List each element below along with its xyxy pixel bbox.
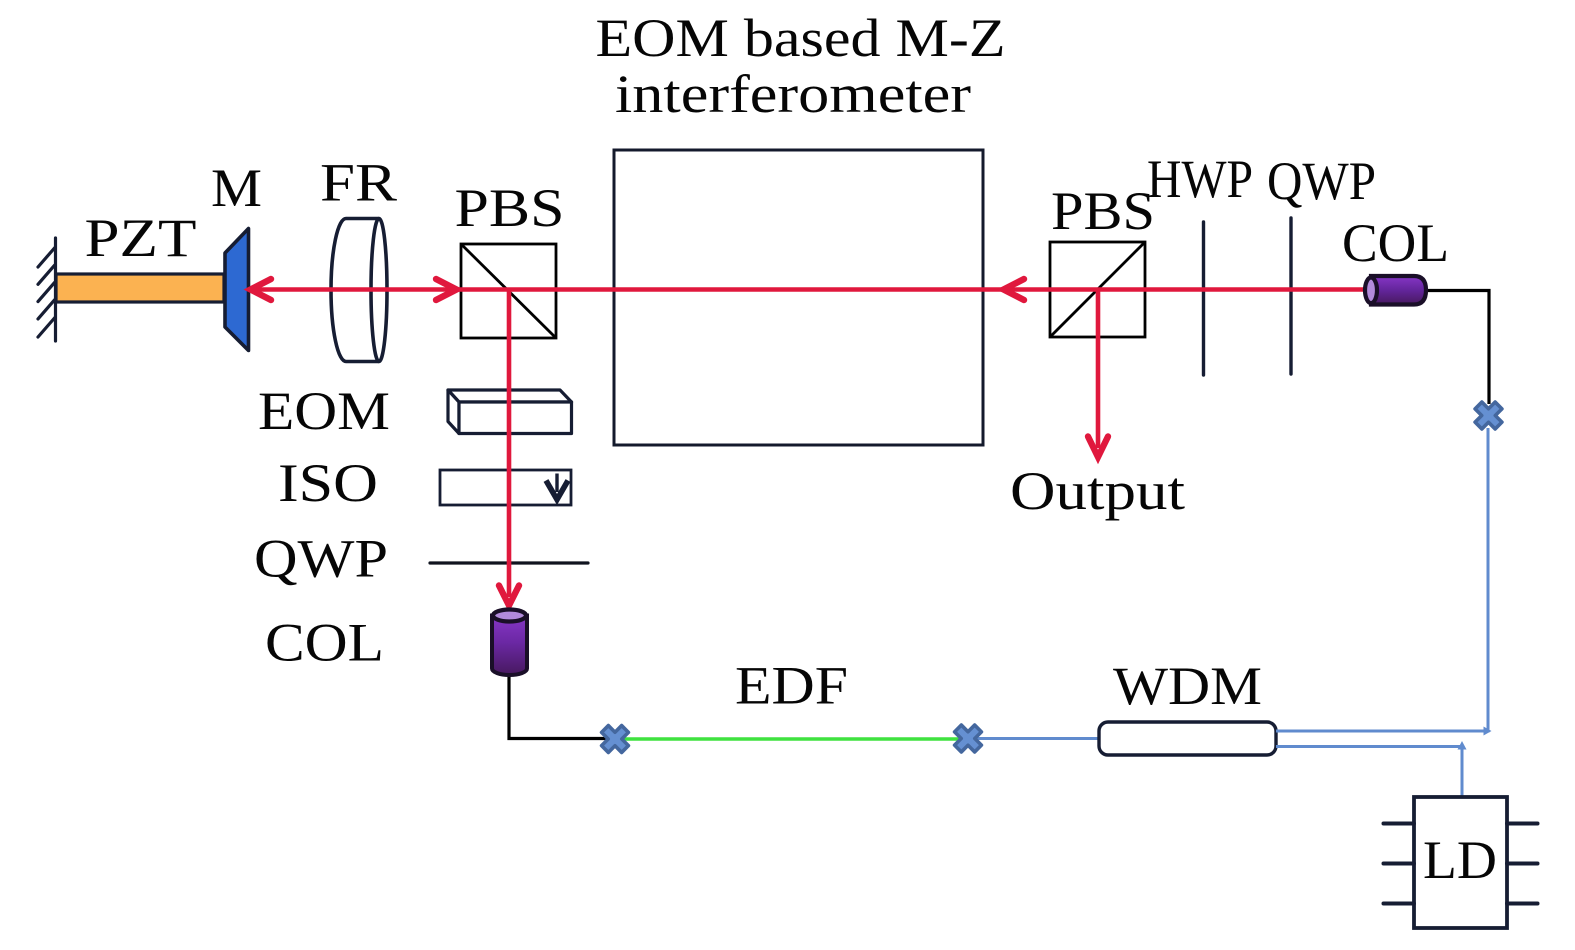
svg-text:LD: LD [1423,830,1497,890]
isolator arrow [546,474,568,500]
svg-text:EDF: EDF [735,656,848,716]
laser diode LD [1414,797,1507,928]
mirror M [225,229,249,351]
svg-text:PZT: PZT [85,208,197,268]
PZT actuator [56,274,224,302]
fiber WDM top port [1276,730,1486,733]
arrowhead fiber up [1458,741,1467,750]
arrowhead fiber right [1484,727,1492,736]
svg-text:interferometer: interferometer [615,64,971,124]
beam arrowhead toward box [1004,279,1025,300]
svg-text:QWP: QWP [254,529,388,589]
beam arrowhead to collimator [499,586,519,606]
splice X3 [1468,395,1508,435]
svg-text:QWP: QWP [1267,151,1376,211]
svg-text:WDM: WDM [1113,656,1262,716]
collimator COL (right, horizontal cylinder) [1365,276,1426,305]
beam horizontal [252,287,1370,292]
fiber right vertical [1487,428,1490,733]
svg-text:PBS: PBS [455,178,565,238]
collimator COL (lower, vertical cylinder) [492,610,527,676]
svg-text:EOM: EOM [258,381,390,441]
beam vertical right (output) [1096,291,1101,448]
splice X2 [948,718,988,758]
beam vertical left [507,291,512,597]
wire collimator to splice [509,673,613,739]
PBS cube (left) [461,244,556,338]
beam arrowhead at mirror [251,279,272,300]
wall [38,238,56,341]
svg-text:FR: FR [320,153,397,213]
fiber splice to WDM [968,737,1099,740]
svg-text:M: M [211,158,262,218]
EOM modulator box [448,390,572,434]
PBS cube (right) [1050,242,1145,337]
beam arrowhead into left PBS [436,279,457,300]
svg-text:ISO: ISO [278,453,378,513]
svg-text:EOM based M-Z: EOM based M-Z [596,8,1006,68]
svg-text:PBS: PBS [1051,181,1155,241]
M-Z interferometer box [614,150,983,445]
quarter-wave plate (right) [1289,218,1292,374]
EDF fiber (green) [620,737,962,740]
beam arrowhead output [1088,437,1108,458]
svg-text:COL: COL [265,613,384,673]
splice X1 [595,719,635,759]
svg-text:COL: COL [1342,213,1449,273]
fiber WDM bottom port [1276,747,1462,797]
isolator ISO [440,470,571,505]
svg-text:HWP: HWP [1147,149,1253,209]
wire COL right to splice [1428,291,1489,405]
Faraday rotator FR [331,219,387,362]
svg-text:Output: Output [1010,461,1185,521]
WDM coupler [1099,722,1276,755]
half-wave plate HWP [1202,222,1205,375]
LD pins [1384,824,1538,904]
quarter-wave plate (lower) [430,561,588,564]
